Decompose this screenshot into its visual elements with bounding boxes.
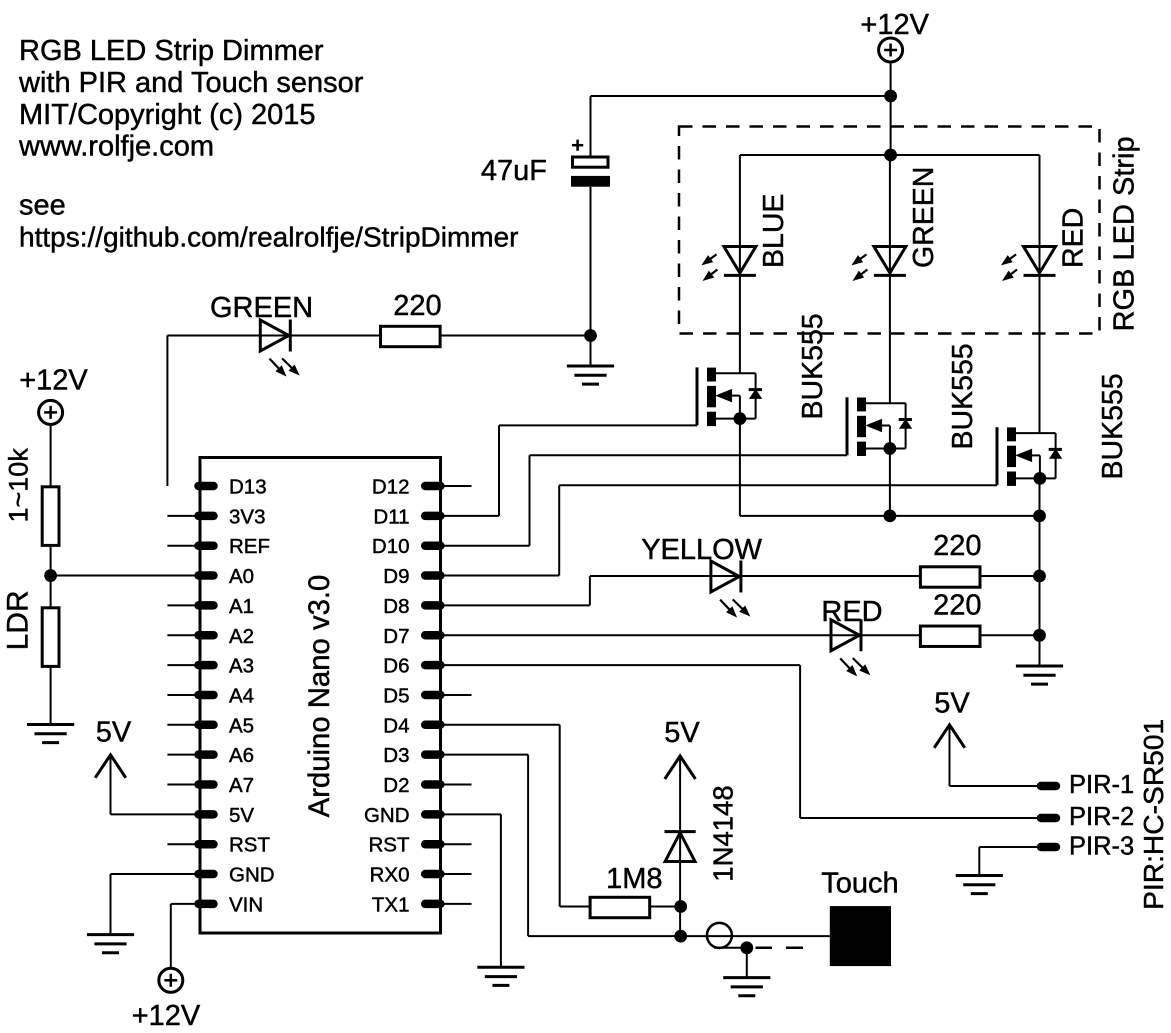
pin A4 left stub: [167, 694, 198, 696]
wire D6 to PIR-2: [442, 664, 800, 666]
svg-text:D11: D11: [373, 505, 409, 528]
svg-text:D9: D9: [383, 565, 409, 588]
capacitor C1 47uF plus sign: [572, 144, 583, 147]
transistor Q1 substrate arrow: [717, 390, 732, 402]
svg-text:PIR:HC-SR501: PIR:HC-SR501: [1137, 719, 1169, 910]
wire green LED column: [889, 155, 891, 403]
svg-text:1N4148: 1N4148: [708, 785, 739, 881]
svg-text:A5: A5: [229, 714, 254, 737]
pin 5V left pill: [199, 810, 214, 819]
pin D12 right stub: [442, 485, 472, 487]
svg-text:D4: D4: [383, 714, 409, 737]
pin A5 left pill: [199, 721, 214, 730]
wire 5V to pin: [110, 755, 112, 815]
pin REF left pill: [199, 541, 214, 550]
pin RST right pill: [425, 840, 440, 849]
power +12V LDR divider: [39, 400, 63, 424]
capacitor C1 47uF bottom plate: [571, 176, 610, 187]
svg-text:A3: A3: [229, 655, 254, 678]
resistor LDR: [42, 608, 59, 667]
pin A1 left stub: [167, 604, 198, 606]
pin A2 left stub: [167, 634, 198, 636]
svg-text:BUK555: BUK555: [1097, 373, 1129, 479]
junction touch ground: [740, 941, 753, 954]
pin 3V3 left pill: [199, 512, 214, 521]
pin A7 left stub: [167, 784, 198, 786]
svg-text:D3: D3: [383, 744, 409, 767]
pin A3 left stub: [167, 664, 198, 666]
svg-text:BLUE: BLUE: [758, 194, 790, 268]
pin D11 right pill: [425, 512, 440, 521]
svg-text:5V: 5V: [96, 717, 132, 749]
touch connection circle: [707, 923, 732, 948]
pin RX0 right stub: [442, 873, 472, 875]
svg-text:Touch: Touch: [821, 868, 898, 900]
wire Q3 source down: [1039, 478, 1041, 516]
transistor Q2 drain lead: [861, 402, 906, 404]
pin TX1 right pill: [425, 900, 440, 909]
svg-text:REF: REF: [229, 535, 270, 558]
transistor Q1 body diode: [755, 373, 757, 418]
transistor Q3 source junction: [1034, 472, 1047, 485]
pin REF left stub: [167, 545, 198, 547]
ground touch: [723, 976, 770, 979]
svg-text:+12V: +12V: [19, 365, 88, 397]
pin A5 left stub: [167, 724, 198, 726]
transistor Q3 body diode: [1055, 433, 1057, 478]
wire 5V to diode: [679, 756, 681, 936]
pin D7 right pill: [425, 631, 440, 640]
LED GREEN indicator: [260, 320, 289, 351]
svg-text:D10: D10: [372, 535, 410, 558]
svg-text:RGB LED Strip Dimmer: RGB LED Strip Dimmer: [19, 35, 324, 67]
pin D13 left pill: [199, 482, 214, 491]
pin D10 right pill: [425, 541, 440, 550]
pin A1 left pill: [199, 601, 214, 610]
wire VIN to +12V: [171, 903, 198, 905]
pin 3V3 left stub: [167, 515, 198, 517]
wire cap to ground junction: [590, 187, 592, 366]
svg-text:GND: GND: [229, 864, 275, 887]
wire touch circle to ground dot: [714, 947, 747, 949]
wire GND left to ground: [111, 873, 199, 875]
LED BLUE: [724, 247, 756, 274]
ground PIR: [956, 874, 1003, 877]
transistor Q2 source junction: [884, 442, 897, 455]
svg-text:5V: 5V: [934, 688, 970, 720]
svg-text:A1: A1: [229, 595, 254, 618]
svg-text:D13: D13: [229, 476, 267, 499]
resistor R4 220: [920, 626, 980, 646]
wire D3 to touch: [442, 754, 528, 756]
wire cap drop: [590, 96, 592, 156]
wire D4 to 1M8: [442, 724, 560, 726]
ground arduino right: [477, 966, 524, 969]
junction cap/R1/ground: [584, 329, 597, 342]
svg-text:LDR: LDR: [2, 590, 35, 650]
svg-text:D5: D5: [383, 684, 409, 707]
wire +12V down to rail: [890, 62, 892, 155]
junction source rail red: [1033, 510, 1046, 523]
transistor Q2 channel bars: [857, 398, 866, 412]
svg-text:RX0: RX0: [370, 864, 410, 887]
svg-text:BUK555: BUK555: [947, 343, 979, 449]
wire Q2 source down: [889, 449, 891, 516]
power +12V VIN: [159, 968, 183, 992]
svg-text:RED: RED: [1058, 208, 1090, 268]
wire blue LED column: [739, 155, 741, 373]
svg-text:A0: A0: [229, 565, 254, 588]
transistor Q2 body diode: [905, 403, 907, 448]
dashed wire to touch pad: [756, 947, 773, 950]
transistor Q1 channel bars: [707, 368, 716, 382]
wire dot to ground: [746, 948, 748, 978]
svg-text:A7: A7: [229, 774, 254, 797]
pin D9 right pill: [425, 571, 440, 580]
svg-text:D8: D8: [383, 595, 409, 618]
wire D13 net: [167, 335, 590, 337]
svg-text:A2: A2: [229, 625, 254, 648]
wire source ground rail: [740, 515, 1040, 517]
pin PIR-3 pill: [1041, 843, 1056, 852]
arduino U1 box: [200, 458, 441, 934]
wire top horizontal to capacitor: [591, 95, 891, 97]
wire D9 to Q3 gate: [442, 575, 559, 577]
svg-text:TX1: TX1: [372, 893, 410, 916]
svg-text:BUK555: BUK555: [797, 313, 829, 419]
resistor R3 220: [920, 567, 980, 587]
wire source rail to ground: [1039, 516, 1041, 666]
svg-text:D7: D7: [383, 625, 409, 648]
ground cap node: [567, 365, 614, 368]
transistor Q2 source lead: [861, 448, 906, 450]
junction rail: [884, 149, 897, 162]
svg-text:5V: 5V: [229, 804, 254, 827]
schematic title block: [18, 35, 519, 252]
capacitor C1 47uF top plate: [573, 157, 609, 167]
transistor Q3 substrate arrow: [1017, 449, 1032, 461]
pin A0 left pill: [199, 571, 214, 580]
arrow 5V arduino: [95, 755, 126, 778]
transistor Q2 gate bar: [846, 397, 849, 455]
svg-text:RGB LED Strip: RGB LED Strip: [1109, 136, 1141, 331]
pin D4 right pill: [425, 721, 440, 730]
LED RED strip: [1024, 247, 1056, 274]
svg-text:+12V: +12V: [132, 1000, 201, 1032]
LED YELLOW: [711, 561, 740, 592]
pin D6 right pill: [425, 661, 440, 670]
resistor R1 220: [381, 326, 441, 346]
pin D2 right stub: [442, 784, 472, 786]
svg-text:1M8: 1M8: [606, 863, 662, 895]
transistor Q1 source lead: [711, 418, 756, 420]
transistor Q3 drain lead: [1011, 432, 1056, 434]
pin A3 left pill: [199, 661, 214, 670]
svg-text:220: 220: [393, 290, 441, 322]
pin VIN left pill: [199, 900, 214, 909]
pin D2 right pill: [425, 780, 440, 789]
pin D3 right pill: [425, 750, 440, 759]
svg-text:https://github.com/realrolfje/: https://github.com/realrolfje/StripDimme…: [19, 221, 519, 252]
ground arduino left: [87, 933, 134, 936]
junction 1M8/diode: [674, 900, 687, 913]
pin A6 left pill: [199, 750, 214, 759]
dashed box RGB LED Strip module: [679, 127, 1100, 334]
LED GREEN strip: [874, 247, 906, 274]
wire D10 to Q2 gate: [442, 545, 530, 547]
pin D8 right pill: [425, 601, 440, 610]
pin D12 right pill: [425, 482, 440, 491]
pin GND left pill: [199, 870, 214, 879]
junction red 220: [1033, 629, 1046, 642]
pin RST left pill: [199, 840, 214, 849]
LED RED indicator: [831, 620, 860, 651]
svg-text:GND: GND: [364, 804, 410, 827]
svg-text:www.rolfje.com: www.rolfje.com: [18, 131, 214, 163]
pin TX1 right stub: [442, 903, 472, 905]
svg-text:YELLOW: YELLOW: [641, 534, 762, 566]
pin A6 left stub: [167, 754, 198, 756]
svg-text:1~10k: 1~10k: [4, 448, 34, 523]
pin PIR-2 pill: [1041, 814, 1056, 823]
pin A2 left pill: [199, 631, 214, 640]
pin A4 left pill: [199, 691, 214, 700]
wire +12V rail inside strip: [740, 154, 1040, 156]
resistor R2 1~10k: [42, 487, 59, 546]
wire +12V to R2: [50, 424, 52, 487]
pin PIR-1 pill: [1041, 782, 1056, 791]
transistor Q3 source lead: [1011, 477, 1056, 479]
svg-text:D12: D12: [372, 476, 410, 499]
svg-text:220: 220: [933, 590, 981, 622]
wire D8 net to yellow LED: [442, 604, 590, 606]
ground source rail: [1016, 665, 1063, 668]
svg-text:with PIR and Touch sensor: with PIR and Touch sensor: [18, 67, 364, 99]
pin RST left stub: [167, 843, 198, 845]
pin D5 right stub: [442, 694, 472, 696]
svg-text:A4: A4: [229, 684, 254, 707]
wire R2 to LDR: [50, 545, 52, 608]
power +12V top supply: [879, 38, 903, 62]
ground LDR: [27, 723, 74, 726]
svg-text:VIN: VIN: [229, 893, 263, 916]
diode D1 1N4148: [665, 830, 696, 833]
svg-text:Arduino Nano v3.0: Arduino Nano v3.0: [303, 575, 336, 818]
svg-text:RST: RST: [369, 834, 410, 857]
junction D3/diode: [674, 930, 687, 943]
svg-text:47uF: 47uF: [481, 155, 547, 187]
svg-text:220: 220: [933, 530, 981, 562]
svg-text:PIR-1: PIR-1: [1069, 771, 1134, 799]
wire PIR-3 to ground: [979, 846, 1037, 848]
svg-text:+12V: +12V: [860, 9, 929, 41]
wire divider to A0: [51, 575, 198, 577]
svg-text:3V3: 3V3: [229, 505, 265, 528]
junction +12V/cap: [884, 90, 897, 103]
transistor Q3 gate bar: [996, 427, 999, 485]
wire Q1 source down: [739, 419, 741, 516]
svg-text:see: see: [19, 190, 66, 222]
wire 5V to PIR-1: [949, 725, 951, 786]
arrow 5V PIR: [934, 725, 965, 748]
svg-text:RST: RST: [229, 834, 270, 857]
pin D5 right pill: [425, 691, 440, 700]
arrow 5V touch: [665, 756, 696, 779]
svg-text:5V: 5V: [664, 717, 700, 749]
junction A0 divider: [44, 569, 57, 582]
svg-text:D2: D2: [383, 774, 409, 797]
svg-text:A6: A6: [229, 744, 254, 767]
pin GND right pill: [425, 810, 440, 819]
resistor R5 1M8: [590, 897, 650, 917]
wire D11 to Q1 gate: [442, 515, 499, 517]
transistor Q1 drain lead: [711, 372, 756, 374]
transistor Q2 substrate arrow: [867, 420, 882, 432]
touch pad: [830, 906, 891, 966]
svg-text:D6: D6: [383, 655, 409, 678]
wire red LED column: [1039, 155, 1041, 433]
wire D7 net to red LED: [442, 634, 1040, 636]
junction yellow 220: [1033, 570, 1046, 583]
transistor Q1 source junction: [734, 412, 747, 425]
pin RST right stub: [442, 843, 472, 845]
wire GND right to ground: [442, 813, 501, 815]
svg-text:PIR-2: PIR-2: [1069, 803, 1134, 831]
wire LDR to ground: [50, 666, 52, 724]
svg-text:GREEN: GREEN: [908, 167, 940, 268]
svg-text:PIR-3: PIR-3: [1069, 833, 1134, 861]
pin RX0 right pill: [425, 870, 440, 879]
transistor Q3 channel bars: [1007, 427, 1016, 441]
svg-text:MIT/Copyright (c) 2015: MIT/Copyright (c) 2015: [19, 99, 316, 131]
pin A7 left pill: [199, 780, 214, 789]
junction source rail green: [884, 510, 897, 523]
transistor Q1 gate bar: [696, 367, 699, 425]
